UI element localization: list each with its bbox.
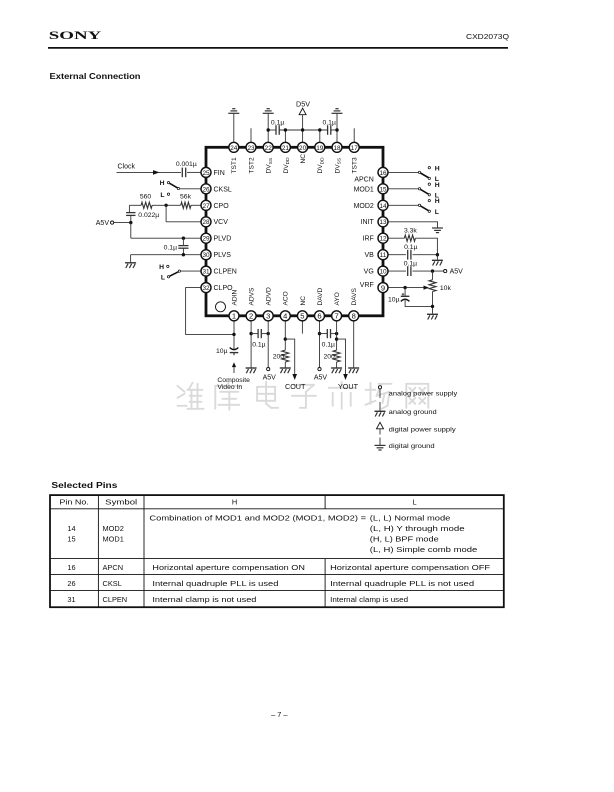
pin 29 PLVD (201, 233, 211, 243)
svg-text:9: 9 (381, 283, 385, 292)
svg-text:MOD1: MOD1 (354, 186, 374, 193)
svg-text:30: 30 (202, 252, 210, 259)
svg-text:ACO: ACO (283, 291, 290, 305)
resistor 3.3k (404, 235, 415, 241)
svg-text:A5V: A5V (450, 269, 464, 276)
svg-text:DAVD: DAVD (317, 287, 324, 305)
svg-text:COUT: COUT (285, 382, 306, 391)
svg-text:Combination of MOD1 and MOD2 (: Combination of MOD1 and MOD2 (MOD1, MOD2… (149, 514, 366, 523)
svg-text:31: 31 (67, 595, 75, 604)
pin 6 DAVD (315, 311, 325, 321)
junction VG node (431, 269, 434, 272)
pin 14 MOD2 (378, 200, 388, 210)
digital ground above pin 22 (267, 108, 270, 110)
legend digital ground symbol (379, 438, 381, 446)
capacitor 0.022u (126, 212, 135, 214)
svg-text:16: 16 (379, 170, 387, 177)
junction pin 2 cap (249, 332, 252, 335)
wire pin 22 to ground (267, 113, 269, 142)
junction PLVS/cap (182, 253, 185, 256)
junction pin 22 rail (267, 128, 270, 131)
wire cap to VB node (413, 254, 438, 256)
svg-text:(L, L) Normal mode: (L, L) Normal mode (370, 514, 451, 523)
pin 17 TST3 (349, 142, 359, 152)
IC body CXD2073Q outline (206, 147, 383, 315)
svg-text:0.001µ: 0.001µ (176, 161, 197, 168)
svg-text:PLVS: PLVS (214, 252, 232, 259)
MOD1 switch (pin 15) (388, 188, 420, 190)
analog ground (DAVS) (348, 367, 359, 369)
svg-text:27: 27 (202, 203, 210, 210)
svg-text:L: L (412, 498, 416, 507)
svg-text:26: 26 (67, 579, 75, 588)
svg-text:External Connection: External Connection (50, 71, 141, 81)
CLPEN switch lever (170, 271, 180, 276)
wire pin 1 ADIN down (233, 321, 235, 350)
analog ground (ACO) (280, 367, 291, 369)
svg-text:23: 23 (247, 145, 255, 152)
stub pin 17 (353, 128, 355, 142)
svg-text:H: H (435, 182, 440, 189)
svg-text:SONY: SONY (49, 30, 102, 42)
pin 21 DVDD (280, 142, 290, 152)
wire ACO to COUT (285, 339, 294, 374)
CKSL switch pivot (177, 187, 179, 189)
capacitor 0.1u (VG) (407, 266, 409, 276)
analog ground (VB) (432, 259, 443, 261)
capacitor 0.1u (DAVD-AYO) (320, 333, 328, 335)
CLPEN switch H terminal (167, 265, 169, 267)
svg-text:6: 6 (317, 312, 321, 321)
pin 16 APCN (378, 167, 388, 177)
junction pin 7 cap (335, 332, 338, 335)
junction ADIN/CLPO (232, 333, 235, 336)
junction PLVD/cap (182, 237, 185, 240)
junction VRF (403, 286, 406, 289)
svg-text:7: 7 (334, 312, 338, 321)
svg-text:(L, H) Y through mode: (L, H) Y through mode (370, 524, 465, 533)
table grid lines (50, 508, 504, 510)
svg-text:0.022µ: 0.022µ (138, 212, 159, 219)
svg-text:14: 14 (67, 524, 75, 533)
svg-text:NC: NC (300, 296, 307, 306)
APCN switch (pin 16) (388, 171, 420, 173)
composite video input arrow (232, 362, 236, 367)
svg-text:16: 16 (67, 563, 75, 572)
A5V terminal (VG) (444, 270, 447, 273)
wire pin 7 AYO down (336, 321, 338, 351)
svg-text:ADVS: ADVS (249, 287, 256, 306)
pin 23 TST2 (246, 142, 256, 152)
svg-text:H: H (435, 165, 440, 172)
svg-text:(H, L) BPF mode: (H, L) BPF mode (370, 535, 439, 544)
svg-text:APCN: APCN (103, 563, 124, 572)
pin 13 INIT (378, 217, 388, 227)
svg-text:19: 19 (316, 145, 324, 152)
analog ground (VRF) (427, 313, 438, 315)
svg-text:Selected Pins: Selected Pins (51, 480, 117, 490)
svg-text:0.1µ: 0.1µ (404, 244, 417, 251)
wire junction to 56k (166, 204, 181, 206)
svg-text:VRF: VRF (360, 282, 374, 289)
svg-text:A5V: A5V (96, 220, 110, 227)
analog ground (PLVS) (125, 262, 136, 264)
wire 10u to pot bottom (405, 299, 432, 306)
pin 28 VCV (201, 217, 211, 227)
potentiometer 10k (429, 280, 436, 292)
svg-text:FIN: FIN (214, 170, 225, 177)
stub pin 20 (302, 130, 304, 143)
pin 20 NC (298, 142, 308, 152)
svg-text:32: 32 (202, 285, 210, 292)
svg-text:Video In: Video In (217, 384, 242, 391)
wire PLVS to ground (130, 255, 132, 263)
svg-text:560: 560 (140, 193, 152, 200)
svg-text:ADVD: ADVD (266, 287, 273, 306)
wire pin 2 ADVS down (250, 321, 252, 368)
svg-text:MOD2: MOD2 (354, 203, 374, 210)
wire D5V to rail (302, 115, 304, 130)
digital ground (INIT) (432, 227, 443, 229)
pin 1 ADIN (229, 311, 239, 321)
wire pin 18 to ground (336, 113, 338, 142)
pin 3 ADVD (263, 311, 273, 321)
svg-text:200: 200 (273, 354, 285, 361)
resistor 200 (AYO) (333, 350, 340, 362)
junction VB node (436, 253, 439, 256)
pin 5 NC (297, 311, 307, 321)
capacitor 0.1u (PLVD-PLVS) (182, 238, 184, 245)
svg-text:VCV: VCV (214, 219, 229, 226)
wire to pin 28 VCV (166, 221, 201, 223)
pin 15 MOD1 (378, 184, 388, 194)
svg-text:H: H (435, 198, 440, 205)
svg-text:0.1µ: 0.1µ (271, 119, 284, 126)
pin 18 DVSS (332, 142, 342, 152)
wire VB node to ground (436, 255, 438, 260)
wire pin 13 INIT to ground (388, 222, 438, 228)
svg-text:analog power supply: analog power supply (389, 391, 458, 398)
svg-text:INIT: INIT (361, 219, 375, 226)
svg-text:IRF: IRF (363, 236, 374, 243)
pin 30 PLVS (201, 250, 211, 260)
resistor 56k (181, 202, 191, 208)
svg-text:H: H (160, 180, 165, 187)
junction pin 3 cap (267, 332, 270, 335)
junction pot bottom (431, 305, 434, 308)
svg-text:56k: 56k (180, 193, 192, 200)
CKSL switch lever (170, 183, 179, 188)
wire 200 to ground (284, 362, 286, 368)
CLPEN switch L terminal (167, 276, 169, 278)
wire 560 to junction (152, 204, 166, 206)
pin 12 IRF (378, 233, 388, 243)
wire cap to A5V (413, 270, 444, 272)
svg-text:H: H (159, 264, 164, 271)
capacitor 10u (VRF) (401, 295, 410, 297)
svg-text:CLPO: CLPO (214, 285, 234, 292)
svg-text:21: 21 (282, 145, 290, 152)
svg-text:Clock: Clock (118, 163, 136, 170)
svg-text:24: 24 (230, 145, 238, 152)
svg-text:CXD2073Q: CXD2073Q (466, 32, 509, 41)
svg-text:Internal clamp is used: Internal clamp is used (330, 595, 408, 604)
junction ACO (284, 337, 287, 340)
svg-text:APCN: APCN (354, 176, 373, 183)
capacitor 0.1u (ADVS-ADVD) (251, 333, 258, 335)
svg-text:Symbol: Symbol (105, 498, 137, 507)
svg-text:10: 10 (379, 269, 387, 276)
digital ground above pin 24 (232, 108, 235, 110)
svg-text:A5V: A5V (263, 375, 277, 382)
svg-text:AYO: AYO (334, 292, 341, 305)
table outer border (50, 495, 504, 607)
wire junction down to VCV row (165, 205, 167, 222)
A5V terminal (DAVD) (318, 368, 321, 371)
digital ground above pin 18 (335, 108, 338, 110)
svg-text:A5V: A5V (314, 375, 328, 382)
wire pin 19 to rail (319, 130, 321, 143)
wire pin 11 VB (388, 254, 406, 256)
junction pin 6 cap (318, 332, 321, 335)
COUT arrow (292, 374, 297, 380)
svg-text:CKSL: CKSL (214, 186, 232, 193)
pin 26 CKSL (201, 184, 211, 194)
svg-text:26: 26 (202, 186, 210, 193)
junction AYO (335, 337, 338, 340)
legend digital power supply symbol (377, 422, 384, 429)
svg-text:0.1µ: 0.1µ (252, 342, 265, 349)
pin 27 CPO (201, 200, 211, 210)
wire VRF to 10u cap (404, 288, 406, 297)
wire VG node to pot (432, 271, 434, 280)
svg-text:29: 29 (202, 236, 210, 243)
pin 9 VRF (378, 283, 388, 293)
stub pin 5 NC (301, 321, 303, 334)
CKSL switch L terminal (167, 193, 169, 195)
wire pin 30 PLVS (131, 254, 202, 256)
svg-text:0.1µ: 0.1µ (164, 244, 177, 251)
svg-text:5: 5 (300, 312, 304, 321)
junction 560/56k (164, 204, 167, 207)
legend analog ground symbol (379, 402, 381, 411)
junction pin 18 rail (335, 128, 338, 131)
svg-text:D5V: D5V (296, 99, 310, 108)
pin 32 CLPO (201, 283, 211, 293)
svg-text:CPO: CPO (214, 203, 230, 210)
svg-text:15: 15 (67, 535, 75, 544)
svg-text:4: 4 (283, 312, 287, 321)
svg-text:CKSL: CKSL (103, 579, 122, 588)
svg-text:Pin No.: Pin No. (59, 498, 89, 507)
pin 22 DVSS (263, 142, 273, 152)
pin 10 VG (378, 266, 388, 276)
svg-text:NC: NC (300, 154, 307, 164)
wire pin 10 VG (388, 270, 406, 272)
capacitor 0.1u (pins 19-18) (327, 125, 329, 135)
svg-text:PLVD: PLVD (214, 236, 232, 243)
pin 2 ADVS (246, 311, 256, 321)
power rail wire (pins 22-18) (268, 129, 276, 131)
capacitor 10u (ADIN) (230, 352, 239, 354)
svg-text:10µ: 10µ (216, 348, 228, 355)
svg-text:analog ground: analog ground (389, 409, 437, 416)
svg-text:Horizontal aperture compensati: Horizontal aperture compensation OFF (330, 563, 491, 572)
wire 560 to cap 0.022u (128, 205, 130, 212)
analog ground (ADVS) (246, 367, 257, 369)
A5V terminal (ADVD) (267, 368, 270, 371)
svg-text:CLPEN: CLPEN (214, 269, 237, 276)
svg-text:17: 17 (351, 145, 359, 152)
MOD2 switch (pin 14) (388, 204, 420, 206)
svg-text:– 7 –: – 7 – (271, 710, 288, 719)
svg-text:0.1µ: 0.1µ (404, 260, 417, 267)
svg-text:15: 15 (379, 186, 387, 193)
capacitor 0.001u (181, 168, 183, 178)
svg-text:MOD1: MOD1 (103, 535, 124, 544)
svg-text:VG: VG (364, 269, 374, 276)
svg-text:L: L (435, 209, 439, 216)
svg-text:Internal clamp is not used: Internal clamp is not used (152, 595, 256, 604)
pin 19 DVDD (315, 142, 325, 152)
pin 25 FIN (201, 167, 211, 177)
svg-text:1: 1 (232, 312, 236, 321)
svg-text:digital ground: digital ground (389, 443, 435, 450)
svg-text:digital power supply: digital power supply (389, 427, 457, 434)
wire Clock to C1 (117, 171, 182, 173)
svg-text:3: 3 (266, 312, 270, 321)
wire 200 to ground (336, 362, 338, 368)
wire AYO to YOUT (337, 339, 346, 374)
svg-text:YOUT: YOUT (338, 382, 359, 391)
pin 31 CLPEN (201, 266, 211, 276)
svg-text:12: 12 (379, 236, 387, 243)
svg-text:14: 14 (379, 203, 387, 210)
svg-text:TST3: TST3 (352, 157, 359, 173)
svg-text:10k: 10k (440, 285, 452, 292)
wire down to PLVD row (130, 223, 132, 239)
resistor 560 (141, 202, 152, 208)
svg-text:13: 13 (379, 219, 387, 226)
svg-text:CLPEN: CLPEN (103, 595, 128, 604)
svg-text:L: L (160, 192, 164, 199)
resistor 200 (ACO) (282, 350, 289, 362)
stub pin 23 (250, 128, 252, 142)
svg-text:L: L (161, 274, 165, 281)
wire pot to junction (432, 292, 434, 314)
pin 24 TST1 (229, 142, 239, 152)
svg-text:Internal quadruple PLL is not: Internal quadruple PLL is not used (330, 579, 474, 588)
svg-text:11: 11 (380, 252, 387, 259)
pin 8 DAVS (349, 311, 359, 321)
svg-text:0.1µ: 0.1µ (322, 342, 335, 349)
D5V supply arrow (299, 108, 306, 115)
svg-text:22: 22 (265, 145, 273, 152)
wire pin 8 DAVS down (353, 321, 355, 368)
svg-text:25: 25 (202, 170, 210, 177)
svg-text:TST1: TST1 (231, 157, 238, 173)
junction pin 19 rail (318, 128, 321, 131)
svg-text:TST2: TST2 (248, 157, 255, 173)
svg-text:8: 8 (352, 312, 356, 321)
svg-text:200: 200 (323, 354, 335, 361)
header rule (48, 47, 508, 49)
wire pin 9 VRF (388, 287, 405, 289)
svg-text:18: 18 (333, 145, 341, 152)
svg-text:28: 28 (202, 219, 210, 226)
wire switch to pin 31 CLPEN (181, 270, 202, 272)
svg-text:Internal quadruple PLL is used: Internal quadruple PLL is used (152, 579, 278, 588)
svg-text:20: 20 (299, 145, 307, 152)
svg-text:H: H (232, 498, 237, 507)
wire 560 left (129, 204, 141, 206)
wire pin 24 to ground (233, 113, 235, 142)
wire pin 3 ADVD down (267, 321, 269, 368)
clock arrow (153, 170, 160, 175)
legend analog power supply symbol (378, 386, 381, 389)
svg-text:2: 2 (249, 312, 253, 321)
svg-text:DAVS: DAVS (351, 287, 358, 305)
svg-text:3.3k: 3.3k (404, 227, 417, 234)
capacitor 0.1u (pins 22-21) (275, 125, 277, 135)
pin 4 ACO (280, 311, 290, 321)
analog ground (AYO) (331, 367, 342, 369)
watermark (178, 386, 185, 392)
pin 11 VB (378, 250, 388, 260)
wire cap to A5V node (130, 215, 132, 222)
wire pin 21 to rail (284, 130, 286, 143)
CKSL switch H terminal (167, 181, 169, 183)
junction pin 21 rail (284, 128, 287, 131)
svg-text:VB: VB (364, 252, 374, 259)
svg-text:(L, H) Simple comb mode: (L, H) Simple comb mode (370, 545, 478, 554)
wire 3.3k to VB node (415, 238, 437, 255)
wire pin 32 CLPO loop (186, 288, 233, 335)
YOUT arrow (343, 374, 348, 380)
wire 56k to pin 27 CPO (191, 204, 201, 206)
svg-text:0.1µ: 0.1µ (323, 119, 336, 126)
capacitor 0.1u (VB) (407, 250, 409, 260)
wire A5V to junction (114, 222, 131, 224)
junction A5V/cap (129, 221, 132, 224)
pin 7 AYO (332, 311, 342, 321)
junction D5V rail (301, 128, 304, 131)
wire pin 4 ACO down (284, 321, 286, 351)
pot wiper arrow (405, 287, 424, 289)
svg-text:31: 31 (202, 269, 210, 276)
wire pin 6 DAVD down (319, 321, 321, 368)
wire pin 12 IRF (388, 237, 405, 239)
IC pin-1 orientation mark (216, 302, 226, 312)
svg-text:10µ: 10µ (388, 297, 400, 304)
CLPEN switch pivot (178, 270, 180, 272)
wire C1 to pin 25 FIN (187, 171, 201, 173)
svg-text:MOD2: MOD2 (103, 524, 124, 533)
svg-text:Horizontal aperture compensati: Horizontal aperture compensation ON (152, 563, 305, 572)
wire switch to pin 26 CKSL (180, 188, 202, 190)
